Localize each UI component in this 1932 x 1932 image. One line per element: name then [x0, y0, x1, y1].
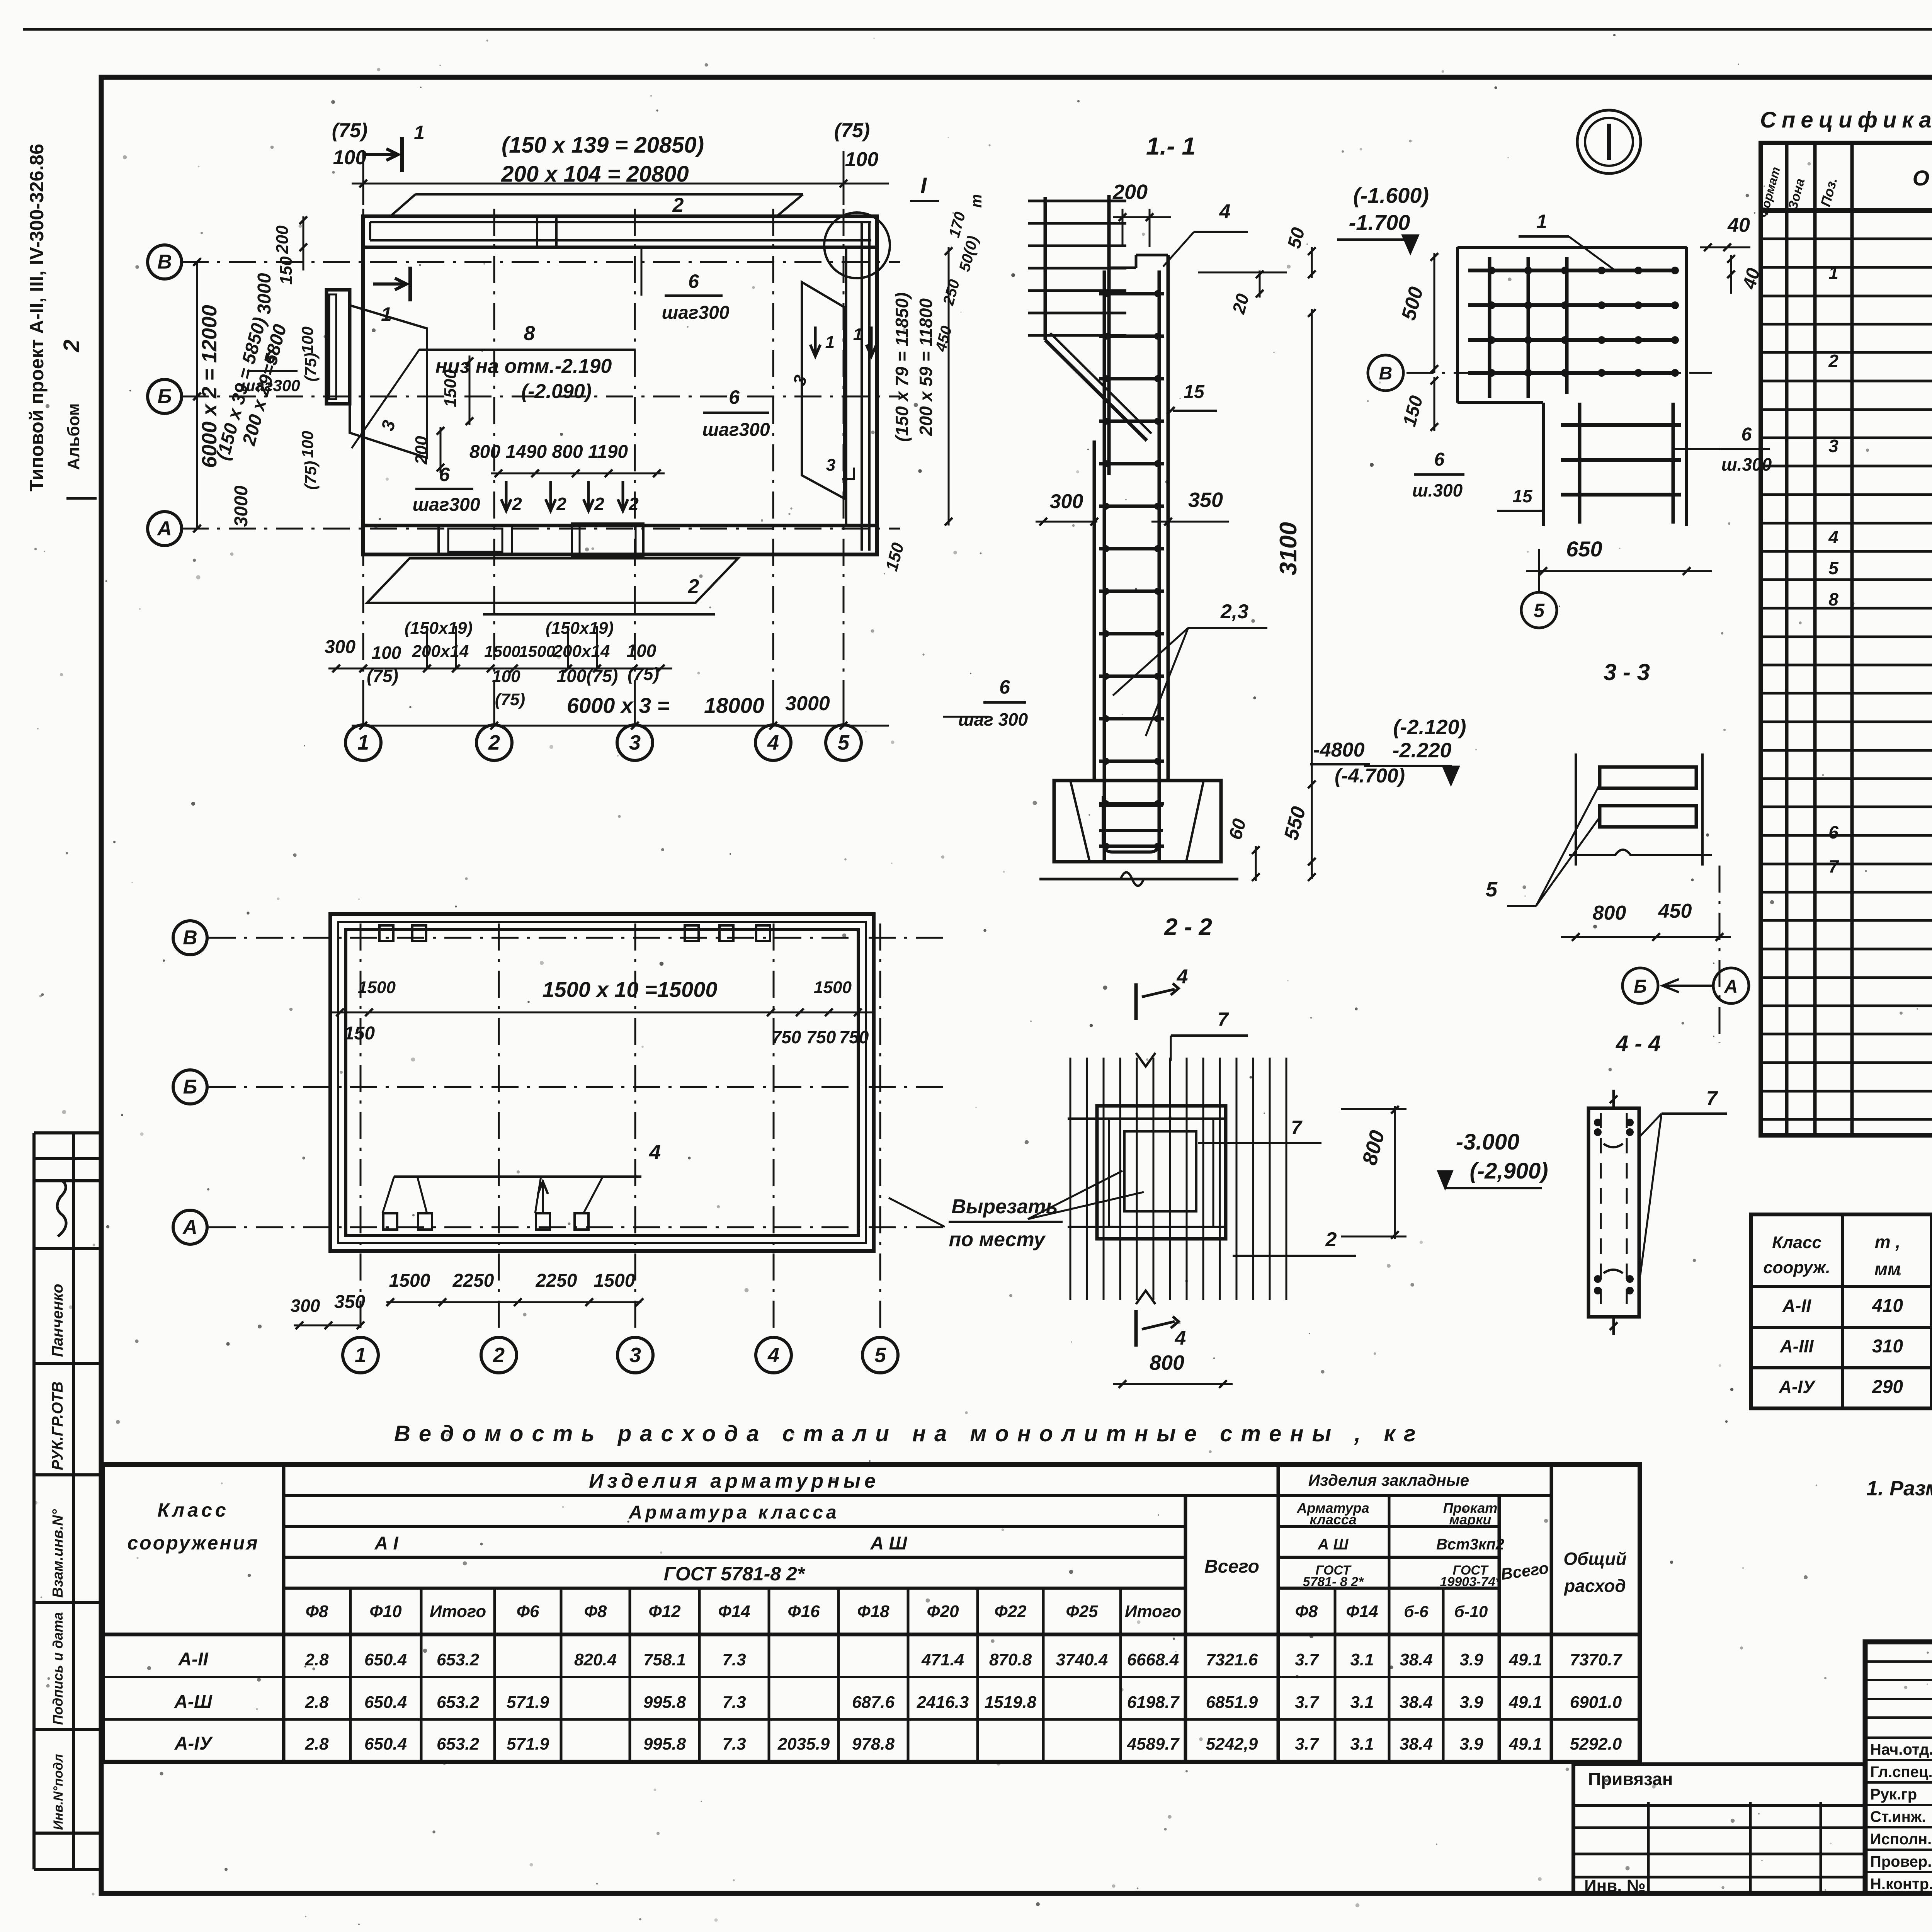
- svg-text:38.4: 38.4: [1400, 1693, 1433, 1712]
- svg-text:Ф16: Ф16: [787, 1602, 820, 1621]
- plan(top): down arrows 2: [501, 481, 511, 511]
- svg-text:1.- 1: 1.- 1: [1146, 132, 1196, 160]
- svg-text:100: 100: [298, 431, 316, 458]
- svg-text:Исполн.: Исполн.: [1870, 1831, 1932, 1848]
- svg-text:650.4: 650.4: [364, 1735, 407, 1753]
- node I: corner walls: [1458, 246, 1687, 249]
- svg-text:653.2: 653.2: [437, 1735, 480, 1753]
- steel table header horizontals: [284, 1494, 1551, 1497]
- node I: vertical leg bars: [1578, 403, 1582, 524]
- svg-text:3.1: 3.1: [1350, 1650, 1374, 1669]
- svg-text:5292.0: 5292.0: [1570, 1735, 1622, 1753]
- detail 2-2: outer square frames: [1097, 1106, 1226, 1239]
- svg-text:978.8: 978.8: [852, 1735, 895, 1753]
- section 4-4: break arrows top/bottom: [1612, 1090, 1615, 1108]
- class table: [1751, 1214, 1932, 1408]
- svg-text:Панченко: Панченко: [49, 1284, 66, 1357]
- svg-text:(75): (75): [628, 664, 659, 684]
- svg-text:3100: 3100: [1275, 522, 1302, 575]
- svg-text:995.8: 995.8: [643, 1735, 686, 1753]
- svg-text:2416.3: 2416.3: [917, 1693, 969, 1712]
- svg-text:класса: класса: [1310, 1512, 1357, 1527]
- svg-text:(75): (75): [332, 119, 367, 142]
- plan(bottom): axis circles left: [173, 921, 207, 955]
- svg-text:2.8: 2.8: [304, 1650, 329, 1669]
- svg-text:4: 4: [1219, 201, 1231, 223]
- plan(top): wall outline: [363, 216, 877, 554]
- svg-text:2: 2: [59, 340, 84, 352]
- svg-text:7.3: 7.3: [722, 1650, 746, 1669]
- svg-text:(-2.120): (-2.120): [1393, 716, 1466, 739]
- svg-text:7321.6: 7321.6: [1206, 1650, 1258, 1669]
- svg-text:7: 7: [1218, 1009, 1229, 1030]
- svg-text:3000: 3000: [254, 273, 275, 314]
- svg-text:Ф12: Ф12: [648, 1602, 681, 1621]
- svg-text:по месту: по месту: [949, 1228, 1046, 1251]
- svg-text:6668.4: 6668.4: [1127, 1650, 1179, 1669]
- sidebar stamp boxes: [32, 1133, 36, 1869]
- svg-text:Ф6: Ф6: [517, 1602, 539, 1621]
- svg-text:6198.7: 6198.7: [1127, 1693, 1180, 1712]
- svg-text:1500: 1500: [441, 369, 460, 407]
- svg-text:15: 15: [1512, 486, 1533, 506]
- svg-text:38.4: 38.4: [1400, 1735, 1433, 1753]
- svg-text:3.7: 3.7: [1295, 1693, 1320, 1712]
- title block: label rows: [1865, 1759, 1932, 1761]
- svg-text:750: 750: [806, 1027, 836, 1047]
- svg-text:шаг300: шаг300: [412, 495, 480, 515]
- svg-text:Ф10: Ф10: [369, 1602, 402, 1621]
- svg-text:650: 650: [1566, 537, 1602, 561]
- node I: axis В dash-dot + circle: [1406, 372, 1712, 374]
- svg-text:571.9: 571.9: [507, 1735, 549, 1753]
- svg-text:2250: 2250: [452, 1270, 494, 1291]
- svg-text:Изделия закладные: Изделия закладные: [1308, 1471, 1469, 1489]
- plan(top): right slanted flag 3: [802, 282, 844, 498]
- svg-text:1: 1: [825, 333, 835, 352]
- svg-text:1519.8: 1519.8: [985, 1693, 1037, 1712]
- svg-text:б-6: б-6: [1404, 1602, 1429, 1621]
- svg-text:А: А: [1724, 976, 1738, 997]
- svg-text:Инв.N°подл: Инв.N°подл: [51, 1754, 66, 1830]
- svg-text:Подпись и дата: Подпись и дата: [50, 1612, 66, 1725]
- svg-text:3.9: 3.9: [1459, 1693, 1483, 1712]
- svg-text:820.4: 820.4: [574, 1650, 617, 1669]
- svg-text:Ф14: Ф14: [718, 1602, 750, 1621]
- sidebar signature squiggle: [57, 1180, 66, 1236]
- svg-text:49.1: 49.1: [1509, 1650, 1542, 1669]
- svg-text:Рук.гр: Рук.гр: [1870, 1786, 1917, 1803]
- plan(top): right side section arrows 1: [810, 327, 820, 356]
- svg-text:сооруж.: сооруж.: [1763, 1258, 1830, 1277]
- plan(top): left door wall piece: [327, 290, 350, 404]
- svg-text:1: 1: [355, 1344, 366, 1367]
- svg-text:40: 40: [1727, 214, 1750, 236]
- svg-text:Альбом: Альбом: [64, 403, 83, 470]
- plan(top): top dimension line and texts: [352, 183, 889, 185]
- svg-text:шаг300: шаг300: [702, 420, 770, 440]
- svg-text:Арматура класса: Арматура класса: [628, 1502, 839, 1523]
- svg-text:200: 200: [412, 436, 431, 465]
- svg-text:Класс: Класс: [157, 1499, 229, 1521]
- svg-text:Взам.инв.N°: Взам.инв.N°: [50, 1509, 66, 1598]
- svg-text:687.6: 687.6: [852, 1693, 895, 1712]
- svg-text:6851.9: 6851.9: [1206, 1693, 1258, 1712]
- svg-text:ГОСТ 5781-8 2*: ГОСТ 5781-8 2*: [664, 1563, 806, 1585]
- plan(top): node I mark circle: [824, 213, 890, 278]
- svg-text:4: 4: [767, 731, 779, 754]
- svg-text:Изделия арматурные: Изделия арматурные: [589, 1470, 879, 1492]
- svg-text:758.1: 758.1: [643, 1650, 686, 1669]
- detail 3-3: circles Б and А with arrow: [1622, 968, 1658, 1003]
- svg-text:расход: расход: [1563, 1576, 1626, 1596]
- svg-text:6901.0: 6901.0: [1570, 1693, 1622, 1712]
- svg-text:Ф14: Ф14: [1346, 1602, 1378, 1621]
- spec table verticals: [1785, 143, 1789, 1135]
- section 4-4: embed dots: [1594, 1119, 1602, 1126]
- svg-text:4: 4: [767, 1344, 779, 1367]
- svg-text:ш.300: ш.300: [1721, 454, 1772, 474]
- svg-text:А: А: [182, 1216, 197, 1238]
- node I: double circle mark: [1577, 110, 1641, 173]
- svg-text:Итого: Итого: [1125, 1602, 1181, 1621]
- svg-text:2,3: 2,3: [1220, 600, 1248, 623]
- plan(top): section mark 1 inner: [408, 267, 412, 301]
- detail 3-3: vertical edges with break: [1575, 753, 1577, 866]
- svg-text:Ф22: Ф22: [994, 1602, 1027, 1621]
- svg-text:2: 2: [688, 575, 699, 598]
- svg-text:3: 3: [1828, 436, 1838, 456]
- svg-text:1: 1: [1828, 263, 1838, 283]
- svg-text:5242,9: 5242,9: [1206, 1735, 1258, 1753]
- plan(top): axis grid dash-dot lines: [362, 209, 364, 726]
- svg-text:6: 6: [999, 676, 1010, 698]
- svg-text:653.2: 653.2: [437, 1650, 480, 1669]
- svg-text:3.1: 3.1: [1350, 1693, 1374, 1712]
- svg-text:1500: 1500: [519, 642, 555, 660]
- svg-text:5: 5: [1534, 600, 1545, 621]
- svg-text:5781- 8 2*: 5781- 8 2*: [1303, 1575, 1364, 1589]
- detail 2-2: vertical bars field: [1070, 1058, 1071, 1300]
- svg-text:Вырезать: Вырезать: [951, 1196, 1058, 1218]
- svg-text:-1.700: -1.700: [1349, 210, 1410, 235]
- svg-text:200х14: 200х14: [553, 642, 610, 661]
- svg-text:4: 4: [1177, 966, 1188, 988]
- svg-text:4: 4: [1828, 527, 1838, 547]
- svg-text:750: 750: [839, 1027, 869, 1047]
- svg-text:100: 100: [298, 327, 316, 354]
- svg-text:100: 100: [845, 148, 879, 171]
- svg-text:4: 4: [649, 1141, 661, 1164]
- svg-text:2: 2: [594, 494, 604, 514]
- svg-text:2250: 2250: [536, 1270, 577, 1291]
- svg-text:(150 х 139 = 20850): (150 х 139 = 20850): [502, 133, 704, 158]
- svg-text:Ф8: Ф8: [1295, 1602, 1318, 1621]
- svg-text:низ на отм.-2.190: низ на отм.-2.190: [435, 355, 612, 378]
- svg-text:3000: 3000: [785, 692, 830, 715]
- svg-text:6: 6: [1434, 449, 1445, 470]
- svg-text:19903-74*: 19903-74*: [1440, 1575, 1502, 1589]
- svg-text:3 - 3: 3 - 3: [1604, 659, 1650, 685]
- svg-text:2: 2: [1828, 351, 1838, 371]
- detail 2-2: horizontal frame bars: [1068, 1117, 1226, 1120]
- section 4-4: narrow column: [1588, 1108, 1639, 1317]
- svg-text:А-II: А-II: [1782, 1296, 1811, 1316]
- svg-text:49.1: 49.1: [1509, 1693, 1542, 1712]
- svg-text:(-2,900): (-2,900): [1469, 1158, 1548, 1184]
- plan(top): axis circles bottom 1-5: [345, 725, 381, 760]
- svg-text:Провер.: Провер.: [1870, 1853, 1932, 1870]
- svg-text:1500: 1500: [484, 642, 520, 660]
- svg-text:5: 5: [1828, 558, 1839, 578]
- svg-text:3.1: 3.1: [1350, 1735, 1374, 1753]
- svg-text:2.8: 2.8: [304, 1735, 329, 1753]
- svg-text:300: 300: [325, 637, 355, 657]
- svg-text:3740.4: 3740.4: [1056, 1650, 1108, 1669]
- svg-text:7: 7: [1706, 1087, 1718, 1110]
- svg-text:Б: Б: [158, 385, 172, 408]
- svg-text:В: В: [183, 927, 197, 949]
- svg-text:РУК.ГР.ОТВ: РУК.ГР.ОТВ: [49, 1381, 66, 1470]
- svg-text:Н.контр.: Н.контр.: [1870, 1876, 1932, 1893]
- svg-text:995.8: 995.8: [643, 1693, 686, 1712]
- svg-text:3: 3: [826, 456, 835, 474]
- svg-text:1500: 1500: [358, 978, 396, 997]
- svg-text:1: 1: [357, 731, 369, 754]
- section 1-1: upper wall ladder: [1044, 197, 1047, 340]
- svg-text:мм: мм: [1874, 1259, 1901, 1279]
- svg-text:(-1.600): (-1.600): [1353, 183, 1429, 207]
- svg-text:Ф20: Ф20: [927, 1602, 959, 1621]
- plan(top): left slanted flag 3: [350, 305, 427, 458]
- title block main outer: [1865, 1642, 1932, 1893]
- svg-text:А-IУ: А-IУ: [1779, 1377, 1816, 1397]
- svg-text:1: 1: [381, 303, 392, 325]
- svg-text:200х14: 200х14: [412, 642, 469, 661]
- svg-text:А-III: А-III: [1780, 1336, 1814, 1356]
- svg-text:750: 750: [772, 1027, 801, 1047]
- svg-text:(75): (75): [495, 690, 525, 709]
- svg-text:38.4: 38.4: [1400, 1650, 1433, 1669]
- svg-text:Класс: Класс: [1772, 1233, 1821, 1252]
- plan(bottom): dashed mid wall rectangle: [338, 922, 866, 1243]
- plan(bottom): axis circles bottom: [343, 1337, 378, 1373]
- svg-text:7.3: 7.3: [722, 1735, 746, 1753]
- svg-text:653.2: 653.2: [437, 1693, 480, 1712]
- svg-text:1500: 1500: [814, 978, 852, 997]
- svg-text:(150 х 79 = 11850): (150 х 79 = 11850): [892, 293, 912, 442]
- svg-text:2: 2: [672, 194, 684, 216]
- svg-text:571.9: 571.9: [507, 1693, 549, 1712]
- svg-text:800: 800: [1593, 902, 1626, 924]
- svg-text:Б: Б: [183, 1076, 197, 1098]
- plan(top): section mark 1 top: [400, 137, 404, 172]
- svg-text:100: 100: [627, 641, 656, 661]
- svg-text:Ф8: Ф8: [306, 1602, 328, 1621]
- svg-text:5: 5: [838, 731, 850, 754]
- svg-text:5: 5: [874, 1344, 886, 1367]
- svg-text:7370.7: 7370.7: [1570, 1650, 1623, 1669]
- svg-text:Типовой проект А-II, III, IV-: Типовой проект А-II, III, IV-300-326.86: [26, 144, 48, 492]
- svg-text:150: 150: [344, 1023, 375, 1044]
- svg-text:Привязан: Привязан: [1588, 1769, 1673, 1789]
- svg-text:Б: Б: [1634, 976, 1647, 997]
- node I: vertical stirrups in top band: [1488, 257, 1492, 398]
- svg-text:1: 1: [414, 122, 425, 143]
- svg-text:6: 6: [688, 270, 699, 292]
- svg-text:200: 200: [1112, 180, 1148, 204]
- svg-text:2 - 2: 2 - 2: [1164, 914, 1212, 940]
- steel table verticals: [282, 1464, 286, 1762]
- svg-text:300: 300: [291, 1296, 320, 1316]
- svg-text:В: В: [1379, 363, 1393, 384]
- svg-text:1. Размеры и отметки в ск: 1. Размеры и отметки в скобках даны для …: [1866, 1477, 1932, 1500]
- svg-text:шаг 300: шаг 300: [958, 709, 1028, 730]
- svg-text:В: В: [157, 251, 172, 273]
- svg-text:ш.300: ш.300: [1412, 480, 1463, 500]
- node I: horizontal rebar rows in top band: [1468, 269, 1677, 272]
- svg-text:3: 3: [629, 731, 641, 754]
- svg-text:-2.220: -2.220: [1392, 739, 1451, 762]
- svg-text:15: 15: [1184, 382, 1205, 402]
- svg-text:3000: 3000: [231, 485, 252, 527]
- svg-text:310: 310: [1872, 1336, 1903, 1357]
- plan(bottom): embed plates top row: [379, 925, 393, 941]
- plan(top): top slanted flag 2: [388, 195, 802, 216]
- svg-text:А Ш: А Ш: [1317, 1536, 1349, 1553]
- plan(bottom): embed plates bottom row: [383, 1213, 397, 1230]
- svg-text:100: 100: [372, 643, 401, 663]
- svg-text:Общий: Общий: [1563, 1549, 1626, 1569]
- svg-text:б-10: б-10: [1454, 1602, 1488, 1621]
- svg-text:100: 100: [492, 667, 520, 686]
- svg-text:(75): (75): [301, 353, 320, 382]
- svg-text:сооружения: сооружения: [127, 1532, 259, 1554]
- svg-text:Вст3кп2: Вст3кп2: [1436, 1536, 1504, 1553]
- sheet outer border top: [23, 28, 1932, 31]
- svg-text:-3.000: -3.000: [1456, 1129, 1519, 1155]
- svg-text:18000: 18000: [704, 693, 764, 718]
- title block: small top rows: [1865, 1660, 1932, 1663]
- svg-text:870.8: 870.8: [989, 1650, 1032, 1669]
- svg-text:6: 6: [729, 386, 740, 408]
- svg-text:6: 6: [1828, 822, 1838, 842]
- svg-text:1: 1: [1536, 211, 1547, 232]
- svg-text:290: 290: [1872, 1377, 1903, 1397]
- svg-text:Ведомость расхода стали: Ведомость расхода стали на монолитные ст…: [394, 1421, 1424, 1446]
- svg-text:2: 2: [512, 494, 522, 514]
- svg-text:Гл.спец.: Гл.спец.: [1870, 1764, 1932, 1781]
- spec table outer: [1761, 143, 1932, 1135]
- svg-text:8: 8: [524, 322, 535, 345]
- svg-text:Инв. №: Инв. №: [1584, 1876, 1646, 1895]
- svg-text:Итого: Итого: [430, 1602, 486, 1621]
- svg-text:1: 1: [853, 325, 862, 344]
- svg-text:2: 2: [628, 494, 639, 514]
- svg-text:-4800: -4800: [1313, 739, 1365, 761]
- svg-text:А I: А I: [374, 1533, 399, 1554]
- svg-text:I: I: [920, 173, 927, 198]
- svg-text:(150х19): (150х19): [546, 619, 614, 638]
- svg-text:471.4: 471.4: [921, 1650, 964, 1669]
- svg-text:(150х19): (150х19): [405, 619, 473, 638]
- svg-text:650.4: 650.4: [364, 1693, 407, 1712]
- svg-text:А: А: [156, 517, 172, 540]
- svg-text:3.7: 3.7: [1295, 1735, 1320, 1753]
- spec table row lines: [1761, 238, 1932, 240]
- svg-text:2: 2: [488, 731, 500, 754]
- detail 2-2: section arrows 4: [1134, 983, 1138, 1020]
- svg-text:8: 8: [1828, 589, 1838, 609]
- svg-text:(-4.700): (-4.700): [1335, 765, 1405, 787]
- svg-text:4: 4: [1175, 1327, 1186, 1349]
- svg-text:Нач.отд.: Нач.отд.: [1870, 1741, 1932, 1758]
- detail 2-2: break marks: [1136, 1053, 1155, 1066]
- svg-text:200 х 59 = 11800: 200 х 59 = 11800: [916, 298, 936, 436]
- svg-text:6: 6: [1742, 424, 1752, 445]
- svg-text:7.3: 7.3: [722, 1693, 746, 1712]
- svg-text:2035.9: 2035.9: [777, 1735, 830, 1753]
- svg-text:А Ш: А Ш: [870, 1533, 908, 1554]
- steel table data row lines: [103, 1676, 1640, 1678]
- detail 2-2: leaders Вырезать: [1028, 1171, 1122, 1219]
- svg-text:А-IУ: А-IУ: [174, 1733, 213, 1754]
- svg-text:350: 350: [1188, 488, 1223, 512]
- plan(top): bottom slanted flag 2: [367, 558, 738, 603]
- svg-text:1500: 1500: [389, 1270, 430, 1291]
- svg-text:2: 2: [493, 1344, 505, 1367]
- svg-text:100: 100: [333, 146, 367, 169]
- svg-text:(75): (75): [834, 119, 870, 142]
- detail 3-3: embed plates: [1600, 767, 1696, 788]
- section 1-1: foundation: [1054, 781, 1221, 862]
- svg-text:(-2.090): (-2.090): [521, 380, 592, 403]
- svg-text:3.9: 3.9: [1459, 1735, 1483, 1753]
- svg-text:800: 800: [1150, 1351, 1184, 1374]
- svg-text:4589.7: 4589.7: [1127, 1735, 1180, 1753]
- section 1-1: main column outline: [1093, 440, 1096, 781]
- svg-text:шаг300: шаг300: [662, 303, 729, 323]
- svg-text:800 1490 800 1190: 800 1490 800 1190: [469, 442, 628, 462]
- svg-text:6000 х 3 =: 6000 х 3 =: [567, 693, 670, 718]
- svg-text:А-II: А-II: [178, 1649, 209, 1670]
- svg-text:450: 450: [1658, 900, 1692, 922]
- svg-text:5: 5: [1486, 878, 1498, 901]
- section 1-1: column rebar verticals: [1103, 270, 1106, 862]
- svg-text:А-Ш: А-Ш: [174, 1692, 213, 1712]
- svg-text:Ф25: Ф25: [1066, 1602, 1098, 1621]
- svg-text:300: 300: [1050, 490, 1083, 513]
- svg-text:(75): (75): [301, 461, 320, 490]
- plan(bottom): axis dash-dot lines: [360, 923, 362, 1339]
- spec table header row: [1761, 208, 1932, 213]
- svg-text:7: 7: [1828, 856, 1839, 876]
- svg-text:1500 х 10 =15000: 1500 х 10 =15000: [542, 977, 717, 1002]
- svg-text:3: 3: [629, 1344, 641, 1367]
- svg-text:200: 200: [273, 225, 292, 254]
- node I: circle 5 with leader: [1521, 592, 1557, 628]
- svg-text:7: 7: [1291, 1117, 1303, 1138]
- svg-text:650.4: 650.4: [364, 1650, 407, 1669]
- plan(bottom): double rectangle walls: [330, 914, 874, 1251]
- svg-text:Всего: Всего: [1204, 1556, 1259, 1577]
- svg-text:Обозначение: Обозначение: [1913, 166, 1932, 190]
- svg-text:200 х 104 = 20800: 200 х 104 = 20800: [501, 162, 689, 187]
- svg-text:4 - 4: 4 - 4: [1616, 1031, 1661, 1056]
- plan(top): bottom wall door openings: [439, 526, 512, 554]
- svg-text:3.9: 3.9: [1459, 1650, 1483, 1669]
- svg-text:2: 2: [556, 494, 566, 514]
